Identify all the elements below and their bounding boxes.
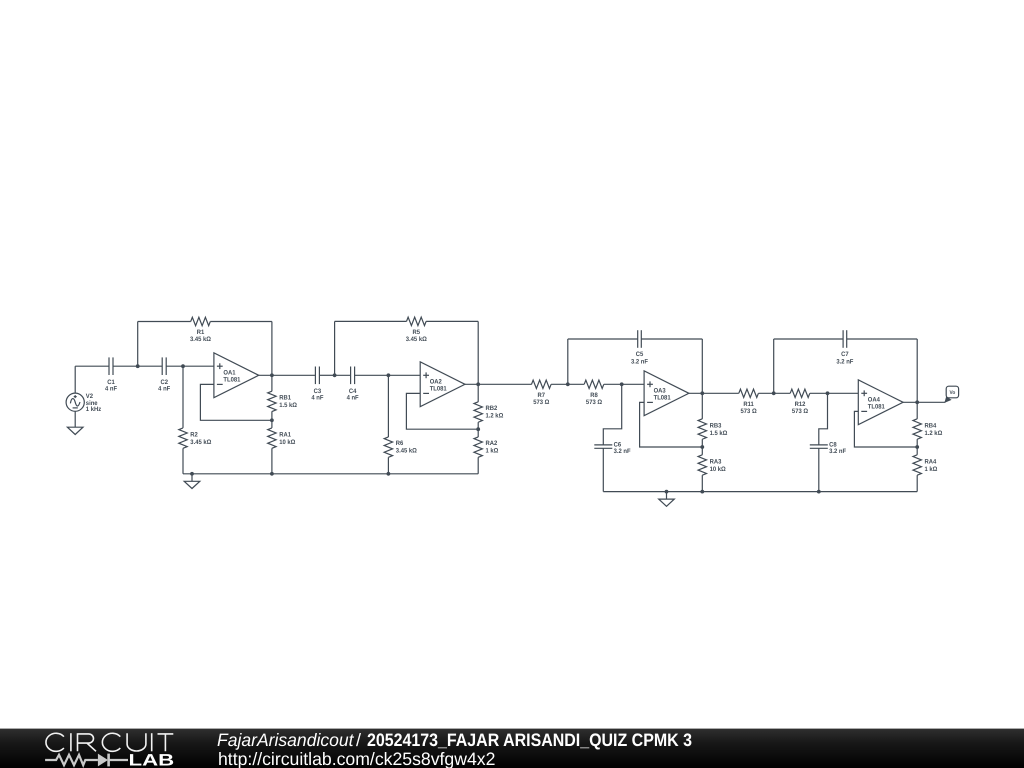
node: OA4 output junction (915, 400, 919, 404)
wire C4 to node D (355, 374, 389, 376)
svg-text:1 kHz: 1 kHz (86, 406, 101, 413)
node H (R12/C8/opamp junction) (826, 391, 830, 395)
svg-text:RA1: RA1 (279, 432, 291, 439)
resistor R2 3.45 k&#937; (179, 366, 212, 474)
node: OA1 output junction (270, 373, 274, 377)
capacitor C2 4 nF (158, 357, 170, 392)
node: OA3 output junction (700, 391, 704, 395)
wire R8 to node F (604, 383, 644, 385)
resistor R7 573 &#937; (532, 380, 552, 406)
svg-text:RB1: RB1 (279, 394, 291, 401)
wire R11 to node G (758, 392, 790, 394)
node E (R7/R8/C5 junction) (566, 382, 570, 386)
CircuitLab logo: CIRCUIT (46, 733, 173, 751)
svg-text:RB2: RB2 (486, 405, 498, 412)
svg-text:R8: R8 (590, 392, 598, 399)
resistor RA3 10 k&#937; (698, 447, 726, 492)
svg-text:3.45 kΩ: 3.45 kΩ (406, 336, 427, 343)
svg-text:573 Ω: 573 Ω (741, 408, 757, 415)
svg-text:R1: R1 (197, 329, 205, 336)
ground (below V2) (67, 427, 83, 434)
svg-text:RB4: RB4 (925, 422, 937, 429)
svg-text:1 kΩ: 1 kΩ (925, 466, 938, 473)
node: ground tap on rail (190, 472, 194, 476)
wire OA4 output (903, 401, 945, 403)
resistor R12 573 &#937; (790, 389, 810, 415)
svg-text:V2: V2 (86, 393, 94, 400)
svg-text:TL081: TL081 (223, 377, 240, 384)
svg-text:/: / (356, 730, 361, 750)
resistor RA1 10 k&#937; (268, 420, 296, 474)
svg-text:20524173_FAJAR ARISANDI_QUIZ C: 20524173_FAJAR ARISANDI_QUIZ CPMK 3 (367, 730, 692, 750)
svg-text:R2: R2 (190, 432, 198, 439)
wire node C to C4 (335, 374, 351, 376)
svg-text:3.2 nF: 3.2 nF (836, 358, 853, 365)
wire node A up to feedback (137, 322, 139, 367)
wire R7 to node E (551, 383, 584, 385)
svg-text:3.2 nF: 3.2 nF (829, 448, 846, 455)
wire R1 to output node vertical (210, 321, 272, 323)
svg-text:FajarArisandicout: FajarArisandicout (217, 730, 354, 750)
resistor R6 3.45 k&#937; (384, 375, 417, 474)
svg-text:3.45 kΩ: 3.45 kΩ (190, 336, 211, 343)
op-amp OA3 TL081 (644, 371, 689, 416)
node G (R11/R12/C7 junction) (772, 391, 776, 395)
capacitor C3 4 nF (311, 367, 323, 402)
node F (R8/C6/opamp junction) (620, 382, 624, 386)
resistor RB3 1.5 k&#937; (698, 393, 727, 447)
svg-text:1.5 kΩ: 1.5 kΩ (710, 430, 728, 437)
svg-text:RB3: RB3 (710, 422, 722, 429)
ground (stage 3-4 rail) (659, 492, 675, 507)
wire node A to C2 (138, 365, 163, 367)
node: ground tap on rail (665, 490, 669, 494)
wire C7 to output node vertical (847, 338, 918, 340)
svg-text:OA3: OA3 (654, 387, 666, 394)
wire R12 to node H (810, 392, 859, 394)
svg-text:1.2 kΩ: 1.2 kΩ (925, 430, 943, 437)
svg-text:C5: C5 (636, 351, 644, 358)
svg-text:RA2: RA2 (486, 440, 498, 447)
svg-text:3.2 nF: 3.2 nF (614, 448, 631, 455)
capacitor C8 3.2 nF (vertical) (810, 393, 846, 491)
svg-text:1.2 kΩ: 1.2 kΩ (486, 413, 504, 420)
wire C3 to node C (319, 374, 334, 376)
node A (C1/C2/R1 junction) (136, 364, 140, 368)
wire R5 to output node vertical (426, 320, 478, 322)
resistor RB1 1.5 k&#937; (268, 375, 297, 420)
svg-text:R12: R12 (795, 401, 806, 408)
svg-text:4 nF: 4 nF (158, 385, 170, 392)
resistor RB2 1.2 k&#937; (474, 384, 503, 429)
capacitor C1 4 nF (105, 357, 117, 392)
node: RA1 on rail (270, 472, 274, 476)
node: RA3 on rail (700, 490, 704, 494)
node Vo output flag (944, 386, 958, 403)
resistor R5 3.45 k&#937; (406, 317, 427, 343)
svg-text:LAB: LAB (129, 750, 175, 768)
svg-text:OA1: OA1 (223, 369, 235, 376)
svg-text:TL081: TL081 (654, 395, 671, 402)
resistor R11 573 &#937; (739, 389, 759, 415)
wire C2 to node B (166, 365, 183, 367)
svg-text:3.45 kΩ: 3.45 kΩ (190, 439, 211, 446)
node: OA2 output junction (476, 382, 480, 386)
wire node G up to feedback (773, 339, 775, 393)
resistor RA2 1 k&#937; (474, 429, 498, 474)
resistor R8 573 &#937; (584, 380, 604, 406)
wire V2 to C1 (75, 365, 109, 367)
CircuitLab logo: resistor-diode line (45, 754, 128, 767)
node C (C3/C4/R5 junction) (333, 373, 337, 377)
wire stage 1-2 bottom rail (183, 473, 478, 475)
footer bar (0, 729, 1024, 768)
voltage source V2 (sine 1 kHz) (66, 366, 101, 427)
wire C5 to output node vertical (641, 338, 702, 340)
resistor RA4 1 k&#937; (913, 447, 937, 492)
svg-text:http://circuitlab.com/ck25s8vf: http://circuitlab.com/ck25s8vfgw4x2 (218, 749, 495, 768)
svg-text:OA2: OA2 (430, 378, 442, 385)
svg-text:R5: R5 (413, 329, 421, 336)
node: RB4/RA4 junction (915, 445, 919, 449)
svg-text:1 kΩ: 1 kΩ (486, 448, 499, 455)
wire node E up to feedback (567, 339, 569, 384)
svg-text:R11: R11 (743, 401, 754, 408)
svg-text:Vo: Vo (950, 390, 956, 396)
wire node B to OA1 + input (183, 365, 214, 367)
svg-text:C7: C7 (841, 351, 849, 358)
wire OA1 output (259, 374, 316, 376)
wire OA3 output (689, 392, 739, 394)
svg-text:3.45 kΩ: 3.45 kΩ (396, 448, 417, 455)
wire node D to OA2 + input (388, 374, 420, 376)
op-amp OA1 TL081 (214, 353, 259, 398)
wire OA1 - input feedback loop (200, 384, 272, 420)
svg-text:10 kΩ: 10 kΩ (710, 466, 726, 473)
svg-text:R6: R6 (396, 440, 404, 447)
node: RB3/RA3 junction (700, 445, 704, 449)
wire node C up to feedback (334, 321, 336, 375)
svg-text:RA4: RA4 (925, 458, 937, 465)
node B (C2/R2/opamp junction) (181, 364, 185, 368)
op-amp OA2 TL081 (420, 362, 465, 407)
wire C1 to node A (113, 365, 138, 367)
wire OA3 - input feedback loop (640, 402, 703, 447)
svg-text:R7: R7 (538, 392, 546, 399)
svg-text:573 Ω: 573 Ω (792, 408, 808, 415)
op-amp OA4 TL081 (858, 380, 903, 425)
svg-text:10 kΩ: 10 kΩ (279, 439, 295, 446)
wire OA2 output (465, 383, 532, 385)
svg-text:OA4: OA4 (868, 396, 880, 403)
svg-text:RA3: RA3 (710, 458, 722, 465)
node: RB2/RA2 junction (476, 427, 480, 431)
resistor R1 3.45 k&#937; (190, 317, 211, 343)
wire feedback left run to C7 (774, 338, 843, 340)
resistor RB4 1.2 k&#937; (913, 402, 942, 447)
svg-text:TL081: TL081 (430, 386, 447, 393)
wire OA4 - input feedback loop (854, 411, 917, 447)
wire feedback left run to C5 (568, 338, 638, 340)
capacitor C6 3.2 nF (vertical) (594, 384, 630, 491)
svg-text:4 nF: 4 nF (105, 385, 117, 392)
capacitor C4 4 nF (347, 367, 359, 402)
svg-text:1.5 kΩ: 1.5 kΩ (279, 402, 297, 409)
svg-text:TL081: TL081 (868, 404, 885, 411)
wire feedback left run to R1 (138, 321, 191, 323)
node D (C4/R6/opamp junction) (387, 373, 391, 377)
wire feedback left run to R5 (335, 320, 407, 322)
node: RB1/RA1 junction (270, 418, 274, 422)
svg-text:573 Ω: 573 Ω (586, 399, 602, 406)
svg-text:4 nF: 4 nF (347, 395, 359, 402)
capacitor C7 3.2 nF (836, 330, 853, 365)
wire OA2 - input feedback loop (406, 393, 478, 429)
node: R6 on rail (387, 472, 391, 476)
capacitor C5 3.2 nF (631, 330, 648, 365)
svg-text:4 nF: 4 nF (311, 395, 323, 402)
svg-text:3.2 nF: 3.2 nF (631, 358, 648, 365)
svg-text:573 Ω: 573 Ω (533, 399, 549, 406)
ground (stage 1-2 rail) (184, 474, 200, 489)
node: C8 on rail (817, 490, 821, 494)
wire stage 3-4 bottom rail (603, 491, 917, 493)
